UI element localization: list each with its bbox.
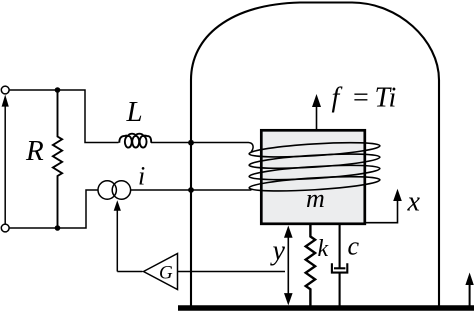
damper c bbox=[332, 224, 347, 306]
wire: inductor to coil bbox=[151, 143, 253, 152]
measurement arrow y (double-headed) bbox=[284, 226, 293, 306]
coil turn 1 bbox=[249, 140, 380, 160]
terminal port bottom-left bbox=[1, 224, 9, 232]
terminal port top-left bbox=[1, 86, 9, 94]
svg-text:m: m bbox=[306, 184, 325, 213]
coil turn 3 bbox=[249, 163, 380, 183]
control arrow into current source bbox=[114, 200, 121, 271]
junction dot on wall (L wire) bbox=[188, 140, 194, 146]
base motion arrow (right) bbox=[465, 273, 473, 307]
coil turn 4 bbox=[249, 174, 380, 194]
junction dot bottom of R bbox=[55, 225, 61, 231]
svg-text:k: k bbox=[318, 236, 329, 262]
voltage arrow between terminals bbox=[2, 95, 9, 224]
junction dot top of R bbox=[55, 87, 61, 93]
junction dot on wall (i wire) bbox=[188, 187, 194, 193]
ground line bbox=[178, 305, 474, 310]
svg-text:c: c bbox=[348, 232, 360, 261]
displacement arrow x bbox=[365, 189, 402, 223]
mass m block bbox=[261, 130, 365, 224]
wire: top terminal to inductor bbox=[9, 90, 118, 143]
wire: amplifier input from y bbox=[178, 271, 286, 273]
current source i bbox=[98, 181, 131, 199]
wire: amplifier output bbox=[117, 271, 142, 273]
spring k bbox=[306, 224, 315, 306]
svg-text:y: y bbox=[270, 236, 286, 267]
svg-text:R: R bbox=[25, 135, 44, 167]
wire: bottom terminal to current source bbox=[9, 190, 98, 228]
resistor R bbox=[53, 90, 62, 228]
wire: current source to coil bbox=[131, 189, 252, 191]
svg-text:L: L bbox=[126, 96, 143, 128]
svg-text:x: x bbox=[407, 187, 421, 218]
force arrow f bbox=[312, 94, 321, 130]
amplifier G bbox=[144, 254, 178, 290]
enclosure frame (bell jar) bbox=[191, 3, 439, 306]
svg-text:i: i bbox=[138, 162, 145, 191]
inductor L bbox=[119, 134, 151, 148]
coil turn 2 bbox=[249, 151, 380, 171]
svg-text:G: G bbox=[159, 263, 173, 284]
